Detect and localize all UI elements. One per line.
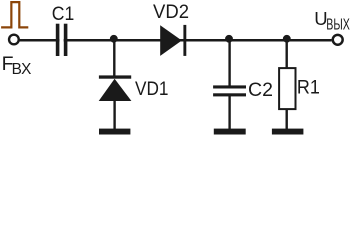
svg-text:ВЫХ: ВЫХ [326, 17, 350, 34]
svg-text:VD1: VD1 [135, 78, 169, 100]
svg-text:C2: C2 [248, 79, 273, 101]
svg-text:C1: C1 [52, 3, 75, 25]
svg-text:R1: R1 [297, 77, 320, 99]
svg-text:VD2: VD2 [153, 1, 189, 23]
svg-text:ВХ: ВХ [12, 61, 32, 78]
